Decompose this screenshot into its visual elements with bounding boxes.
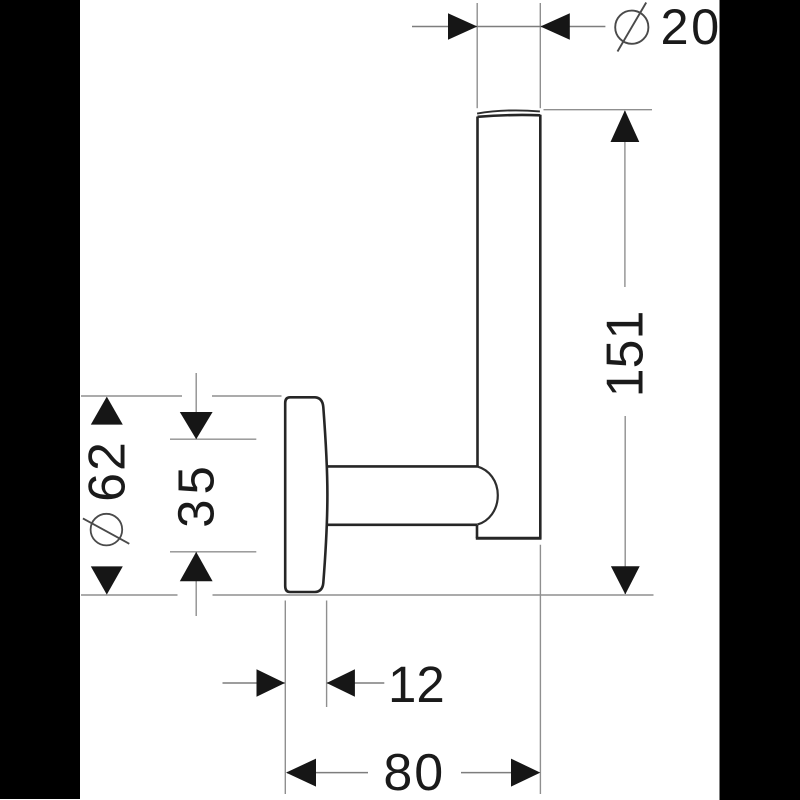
dimension line 35 upper — [195, 373, 197, 439]
dimension line 80 right — [461, 772, 512, 774]
tube right edge — [539, 115, 542, 539]
tube left edge — [476, 117, 479, 467]
arrow 151 top — [611, 110, 640, 142]
arrow 151 bottom — [611, 566, 640, 594]
extension line 35 bottom — [170, 551, 256, 553]
arrow 80 right — [511, 759, 540, 787]
tube step at arm junction — [476, 525, 479, 538]
svg-text:151: 151 — [597, 311, 655, 398]
dimension line 151 upper — [624, 111, 626, 287]
dimension line 12 right — [327, 682, 385, 684]
dimension line 35 lower — [195, 552, 197, 616]
dimension line 12 left — [223, 682, 285, 684]
arrow phi62 bottom — [91, 566, 123, 594]
arm bottom edge — [327, 523, 478, 526]
svg-text:12: 12 — [388, 656, 445, 713]
junction bulge arc — [477, 467, 498, 525]
extension line 80 right vertical — [539, 545, 541, 794]
arm top edge — [327, 465, 478, 468]
extension line phi20 right — [539, 3, 541, 108]
extension line 35 top — [170, 438, 256, 440]
extension line bottom long (phi62 and 151) — [81, 594, 654, 596]
extension line phi62 top — [81, 395, 282, 397]
dimension line phi20 — [412, 26, 605, 28]
arrow phi20 left — [448, 13, 477, 40]
svg-text:35: 35 — [168, 461, 225, 528]
right black bar — [720, 0, 800, 800]
extension line phi20 left — [476, 3, 478, 108]
arrow phi20 right — [540, 13, 569, 40]
tube top edge — [478, 115, 541, 117]
svg-text:62: 62 — [79, 440, 137, 502]
arrow 35 top — [180, 412, 213, 439]
extension line 12 and 80 left vertical — [284, 601, 286, 795]
arrow 12 left — [257, 669, 285, 697]
arrow 12 right — [327, 669, 355, 697]
svg-text:80: 80 — [383, 744, 445, 800]
left black bar — [0, 0, 80, 799]
extension line 12 right vertical — [326, 601, 328, 708]
arrow 35 bottom — [180, 552, 213, 581]
arrow phi62 top — [91, 397, 123, 425]
tube bottom edge — [476, 537, 542, 540]
svg-text:20: 20 — [661, 0, 722, 55]
tube top cap upper arc — [477, 110, 540, 113]
dimension line 151 lower — [624, 416, 626, 594]
dimension line 80 left — [287, 772, 368, 774]
phi symbol of 20 — [615, 3, 648, 52]
phi symbol of 62 — [83, 514, 129, 546]
extension line 151 top — [544, 109, 653, 111]
wall plate outline — [285, 397, 327, 592]
arrow 80 left — [286, 759, 316, 787]
tube body fill — [477, 115, 540, 538]
